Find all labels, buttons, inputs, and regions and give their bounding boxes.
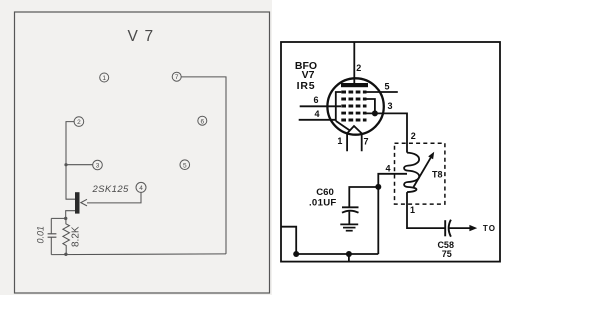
- label BFO: [295, 60, 317, 72]
- label T8: [432, 169, 443, 179]
- transformer T8 coil: [404, 153, 419, 193]
- label pin 6: [313, 95, 318, 105]
- wire from pin 7 to bottom rail: [181, 77, 226, 254]
- plate (anode) of U1: [341, 83, 368, 87]
- wire pin 3 to transformer: [366, 113, 407, 152]
- svg-text:3: 3: [96, 163, 100, 170]
- svg-text:IR5: IR5: [297, 80, 316, 92]
- wire T8 tap 4: [378, 174, 407, 254]
- wire transistor source: [64, 211, 75, 220]
- label 75: [442, 249, 452, 259]
- tube U1 1R5 envelope: [327, 78, 383, 134]
- wire bottom rail left panel: [51, 253, 226, 256]
- svg-text:4: 4: [314, 109, 319, 119]
- svg-text:2: 2: [356, 63, 361, 73]
- grid bracket wire (left): [336, 92, 342, 121]
- wire T8 terminal 1 to C58: [407, 192, 445, 228]
- label .01UF: [309, 198, 337, 209]
- svg-text:TO: TO: [483, 224, 496, 233]
- label C60: [316, 187, 334, 198]
- label pin 7: [363, 137, 368, 147]
- svg-text:4: 4: [139, 185, 143, 192]
- svg-text:7: 7: [175, 74, 179, 81]
- svg-text:V 7: V 7: [128, 28, 155, 45]
- wire pin 5 stub: [366, 91, 398, 93]
- svg-text:V7: V7: [302, 69, 315, 81]
- wire stub to frame bottom: [348, 254, 350, 262]
- pin 4 circle: [136, 182, 146, 192]
- svg-text:1: 1: [102, 75, 106, 82]
- label 2SK125: [92, 184, 130, 195]
- svg-text:2SK125: 2SK125: [92, 184, 130, 195]
- junction node left: [293, 251, 299, 257]
- label 0.01: [36, 226, 46, 244]
- capacitor C58: [445, 220, 451, 237]
- wire stub pin 3: [64, 163, 92, 166]
- label T8 terminal 4: [385, 163, 390, 173]
- svg-text:0.01: 0.01: [36, 226, 46, 244]
- label pin 4: [314, 109, 319, 119]
- grid row 4: [341, 112, 366, 115]
- grid row 1: [341, 91, 366, 94]
- label V7 (tube): [302, 69, 315, 81]
- svg-text:6: 6: [200, 118, 204, 125]
- resistor 8.2K: [63, 218, 70, 256]
- label C58: [437, 240, 454, 250]
- grid row 3: [341, 105, 366, 108]
- capacitor C60: [342, 207, 359, 224]
- wire from pin 2 down to transistor drain: [66, 122, 75, 200]
- junction dot grid2/grid4: [372, 110, 378, 116]
- svg-text:8.2K: 8.2K: [71, 226, 82, 247]
- transformer adjustment arrow: [414, 152, 435, 187]
- svg-text:1: 1: [410, 205, 415, 215]
- label 8.2K: [71, 226, 82, 247]
- filament of U1: [347, 126, 362, 151]
- wire output with arrow: [450, 225, 478, 231]
- label T8 terminal 1: [410, 205, 415, 215]
- svg-text:T8: T8: [432, 169, 443, 179]
- transistor gate arrow: [81, 199, 87, 206]
- grid row 2: [341, 98, 366, 101]
- svg-text:5: 5: [183, 162, 187, 169]
- wire pin 4 stub: [299, 119, 336, 121]
- pin 1 circle: [100, 73, 109, 82]
- pin 6 circle: [198, 116, 207, 125]
- wire grid2 to grid4 tie: [366, 99, 375, 113]
- svg-text:7: 7: [363, 137, 368, 147]
- label pin 3: [387, 101, 392, 111]
- svg-text:1: 1: [337, 136, 342, 146]
- pin 3 circle: [93, 160, 103, 170]
- ground (C60): [340, 224, 358, 230]
- label TO: [483, 224, 496, 233]
- svg-text:2: 2: [411, 131, 416, 141]
- label pin 5: [384, 81, 389, 91]
- svg-text:2: 2: [77, 119, 81, 126]
- capacitor 0.01: [48, 218, 57, 254]
- label 1R5: [297, 80, 316, 92]
- wire to C60: [349, 187, 378, 207]
- wire top rail of RC network: [51, 217, 65, 219]
- junction node C60 tap: [375, 184, 381, 190]
- label T8 terminal 2: [411, 131, 416, 141]
- pin 5 circle: [180, 160, 190, 170]
- wire tube pin 2 from top frame: [353, 42, 355, 84]
- pin 2 circle: [74, 117, 84, 127]
- grid row 5: [341, 119, 366, 122]
- wire bottom bus: [281, 227, 378, 254]
- svg-text:5: 5: [384, 81, 389, 91]
- label V7 (title, left panel): [128, 28, 155, 45]
- svg-text:75: 75: [442, 249, 452, 259]
- label pin 1: [337, 136, 342, 146]
- scan background of left panel: [0, 0, 272, 295]
- svg-text:6: 6: [313, 95, 318, 105]
- svg-text:C60: C60: [316, 187, 334, 198]
- junction node ground stub: [346, 251, 352, 257]
- pin 7 circle: [172, 72, 181, 81]
- transistor Q1 2SK125 channel bar: [75, 192, 80, 213]
- wire pin 6 stub: [300, 105, 341, 107]
- label pin 2: [356, 63, 361, 73]
- wire from pin 4 to gate: [87, 192, 141, 203]
- svg-text:3: 3: [387, 101, 392, 111]
- transformer T8 shield (dashed box): [395, 143, 445, 204]
- svg-text:.01UF: .01UF: [309, 198, 337, 209]
- wire grid to filament diagonal: [336, 121, 351, 131]
- svg-text:4: 4: [385, 163, 390, 173]
